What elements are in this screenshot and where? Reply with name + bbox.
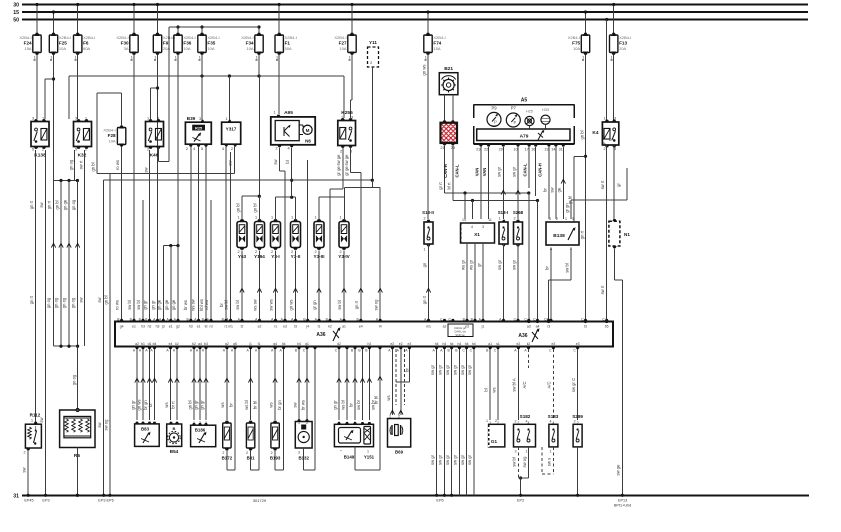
svg-text:15A: 15A (24, 46, 31, 51)
svg-text:1: 1 (582, 56, 584, 60)
svg-text:gn gr: gn gr (143, 300, 148, 310)
svg-text:F34: F34 (246, 40, 254, 45)
wire F30 down to A36 (133, 55, 135, 320)
wire A79 pin13 to B138 (542, 147, 549, 219)
svg-text:sw gr: sw gr (497, 259, 502, 270)
svg-text:X2B4-I: X2B4-I (285, 35, 297, 40)
svg-text:gn ge: gn ge (62, 199, 67, 210)
svg-text:sw gr: sw gr (460, 364, 465, 375)
svg-text:e3: e3 (408, 342, 412, 346)
svg-text:e4: e4 (359, 325, 363, 329)
svg-text:2: 2 (603, 147, 605, 151)
svg-text:1: 1 (271, 216, 273, 220)
svg-text:1: 1 (276, 56, 278, 60)
valve Y3-III (314, 216, 325, 259)
wire B138 pin5 riser (564, 168, 627, 219)
sensor B69 (388, 419, 411, 455)
svg-text:1: 1 (85, 117, 87, 121)
svg-text:16: 16 (531, 148, 535, 152)
wire H25 to A79 (529, 126, 531, 129)
svg-text:gr gn: gr gn (312, 300, 317, 310)
svg-text:G1: G1 (491, 439, 498, 444)
svg-text:EP2: EP2 (517, 499, 524, 503)
svg-text:sw s: sw s (546, 458, 551, 466)
svg-text:ws bl: ws bl (340, 400, 345, 410)
svg-text:br: br (228, 403, 233, 407)
wire pass-through x307.7 (307, 160, 309, 320)
wire A36 to B172 and return (220, 342, 237, 470)
svg-text:gn bl: gn bl (90, 162, 95, 171)
svg-text:e4: e4 (169, 342, 173, 346)
svg-text:sw ws: sw ws (269, 299, 274, 310)
svg-text:P9: P9 (491, 106, 497, 111)
svg-text:sw gr: sw gr (511, 166, 516, 177)
electronic module B39 with R25 (185, 116, 211, 151)
svg-text:1: 1 (550, 450, 552, 454)
wire misc riser x211 (210, 200, 212, 320)
fuse F36 (176, 25, 179, 33)
wire A36 to S183 dashed (547, 342, 556, 425)
svg-text:gn bl: gn bl (54, 200, 59, 209)
wire K32 pin5 down (68, 150, 74, 181)
fuse F74 body (424, 33, 446, 55)
svg-text:4: 4 (287, 147, 289, 151)
svg-text:h4: h4 (458, 342, 462, 346)
wire pair to ground EP19 EP46 (97, 180, 112, 497)
svg-text:sw bl: sw bl (136, 300, 141, 310)
fuse F6 (76, 3, 79, 33)
svg-text:h2: h2 (368, 342, 372, 346)
svg-text:e3: e3 (576, 342, 580, 346)
svg-text:m1: m1 (228, 325, 233, 329)
svg-text:B69: B69 (395, 450, 404, 455)
svg-text:F74: F74 (433, 40, 441, 45)
svg-text:g1: g1 (305, 342, 309, 346)
wire F75 down to A36 (579, 55, 587, 321)
fuse F9 (156, 3, 159, 33)
svg-text:g2: g2 (176, 325, 180, 329)
wire B39 pin4 down (198, 147, 200, 320)
wire B39 pin2 down (190, 147, 192, 320)
svg-text:F75: F75 (572, 40, 580, 45)
svg-text:A5: A5 (521, 98, 528, 104)
svg-text:30: 30 (13, 3, 19, 9)
svg-text:sw rt: sw rt (78, 160, 83, 170)
svg-text:ws gr: ws gr (460, 259, 465, 270)
svg-text:a1: a1 (488, 342, 492, 346)
svg-text:gn: gn (422, 262, 427, 267)
wire S183 dashed down (542, 447, 553, 474)
wire gn-og feed rail y180 (54, 179, 80, 182)
wire K256 pin2 down (330, 148, 343, 320)
svg-text:e3: e3 (283, 325, 287, 329)
svg-text:14: 14 (462, 218, 466, 222)
svg-text:3: 3 (75, 117, 77, 121)
svg-text:sw bl: sw bl (337, 300, 342, 310)
wire misc riser x143 (142, 200, 144, 320)
sensor B149 with valve Y151 (334, 422, 374, 460)
wire CAN link y200.5 (453, 199, 539, 321)
wire A36 to ground EP6 group (430, 342, 476, 497)
wire A36 to B149 and Y151 (332, 342, 375, 425)
wire misc riser x230.6 (230, 152, 232, 320)
relay K32 (74, 117, 92, 159)
svg-text:4: 4 (193, 147, 195, 151)
ground label EP3 (42, 499, 49, 503)
svg-text:2: 2 (246, 451, 248, 455)
svg-text:___: ___ (490, 122, 496, 126)
svg-text:EP13: EP13 (618, 499, 627, 503)
svg-text:sw ge: sw ge (616, 464, 621, 476)
svg-text:bl rt: bl rt (446, 182, 451, 190)
svg-text:gn gr: gn gr (332, 400, 337, 410)
svg-text:br: br (404, 368, 409, 372)
sensor B193 (270, 421, 281, 461)
fuse F75 pin 1 (582, 56, 584, 61)
svg-text:sw ge: sw ge (336, 154, 341, 166)
svg-text:e2: e2 (517, 342, 521, 346)
fuse F1 (278, 3, 281, 33)
wire F36 down to junction (177, 55, 179, 246)
node 50 bus line (13, 18, 808, 24)
wire A36 to B186 (187, 342, 208, 425)
svg-text:sw gr: sw gr (445, 454, 450, 465)
svg-text:j3: j3 (161, 325, 165, 329)
svg-text:gn og: gn og (71, 374, 76, 385)
svg-text:sw gr: sw gr (445, 364, 450, 375)
svg-text:br bl: br bl (252, 401, 257, 409)
svg-text:5: 5 (32, 148, 34, 152)
svg-text:R25: R25 (195, 125, 203, 130)
lamp H25 in A5 (525, 110, 534, 126)
wire A36 to B54 (164, 342, 179, 425)
svg-text:e1: e1 (132, 325, 136, 329)
svg-text:g5: g5 (233, 342, 237, 346)
svg-text:X2B4-I: X2B4-I (83, 35, 95, 40)
wire B138 pin6 down (544, 248, 551, 322)
svg-text:sw rt: sw rt (600, 180, 605, 190)
control unit A36 bar (115, 322, 613, 347)
svg-text:f1: f1 (258, 342, 261, 346)
svg-text:2: 2 (495, 419, 497, 423)
wire F9 down to A36 (151, 55, 160, 320)
svg-text:sw rt: sw rt (600, 285, 605, 295)
svg-text:ws: ws (386, 395, 391, 400)
svg-text:sw gr: sw gr (467, 454, 472, 465)
svg-text:a2: a2 (135, 342, 139, 346)
ground label EP19 EP46 (98, 499, 113, 503)
fuse F27 pin 1 (349, 56, 351, 61)
fuse F9 pin 1 (154, 56, 156, 61)
svg-text:2: 2 (515, 420, 517, 424)
fuse F75 body (568, 33, 590, 55)
connector X1 (461, 218, 495, 243)
svg-text:F30: F30 (121, 40, 129, 45)
svg-text:P7: P7 (511, 106, 517, 111)
valve Y194 (254, 216, 265, 259)
svg-text:sw gr: sw gr (467, 364, 472, 375)
wire N1 down to ground EP13 (615, 248, 625, 497)
svg-text:sw gr: sw gr (453, 454, 458, 465)
ground returns U-loops (227, 447, 380, 470)
svg-text:sw bl: sw bl (235, 300, 240, 310)
svg-text:e1: e1 (197, 325, 201, 329)
svg-text:t3: t3 (584, 325, 587, 329)
fuse F34 body (241, 33, 263, 55)
fuse F34 (257, 25, 260, 33)
svg-text:F1: F1 (285, 40, 291, 45)
ground label EP6 (436, 499, 443, 503)
chevron on x360.8 (359, 288, 363, 292)
svg-text:5: 5 (572, 217, 574, 221)
wire K138 pin5 to R112 (29, 150, 36, 423)
svg-text:4: 4 (222, 147, 224, 151)
connector X30 (red) (440, 120, 457, 149)
svg-text:sw gr: sw gr (438, 364, 443, 375)
svg-text:gn ge: gn ge (164, 299, 169, 310)
wire H33 to A79 (545, 124, 547, 129)
wire X1 out a (460, 243, 467, 321)
svg-text:gn og: gn og (46, 297, 51, 308)
diagram number 301729 (253, 498, 267, 503)
svg-text:1: 1 (50, 56, 52, 60)
sensor B132 (295, 419, 312, 460)
wire Y151 return up (373, 347, 382, 471)
svg-text:gn ws: gn ws (421, 65, 426, 76)
wire B21 to connector X30 (445, 95, 453, 123)
svg-text:gn gr: gn gr (151, 300, 156, 310)
svg-text:gn og: gn og (71, 199, 76, 210)
svg-text:s1: s1 (496, 342, 500, 346)
svg-text:1: 1 (34, 56, 36, 60)
fuse F74 pin 1 (425, 56, 427, 61)
svg-text:29: 29 (499, 148, 503, 152)
svg-text:gn bl: gn bl (252, 203, 257, 212)
svg-text:1: 1 (565, 217, 567, 221)
svg-text:Y151: Y151 (364, 455, 375, 460)
svg-text:h4: h4 (472, 342, 476, 346)
wire A36 to B83 (4 wires) (130, 342, 156, 425)
svg-text:e2: e2 (391, 342, 395, 346)
svg-text:a4: a4 (198, 342, 202, 346)
svg-text:S289: S289 (572, 414, 583, 419)
svg-text:K4: K4 (592, 130, 598, 136)
svg-text:b2: b2 (192, 342, 196, 346)
svg-text:br: br (544, 266, 549, 270)
svg-text:50: 50 (13, 18, 19, 24)
node 15 bus line (13, 10, 808, 16)
svg-text:2: 2 (222, 451, 224, 455)
svg-text:h3: h3 (141, 325, 145, 329)
svg-text:Y317: Y317 (226, 127, 237, 132)
wire S289 to ground (576, 447, 579, 497)
wire X1 out c (476, 243, 483, 321)
wire F24 to K138 pin3 (36, 55, 38, 119)
fuse F27 (350, 3, 353, 33)
svg-text:h4: h4 (465, 342, 469, 346)
svg-text:A36: A36 (316, 332, 325, 338)
svg-text:M: M (306, 128, 310, 133)
wire rail y27 from K46 riser (169, 27, 259, 162)
resistor R112 (24, 413, 42, 455)
svg-text:b3: b3 (204, 342, 208, 346)
svg-text:3: 3 (351, 116, 353, 120)
svg-text:F28: F28 (108, 133, 116, 138)
svg-text:X2B4-I: X2B4-I (183, 35, 195, 40)
svg-text:50A: 50A (285, 46, 292, 51)
fuse F36 pin 1 (175, 56, 177, 61)
ground dot mid (76, 494, 79, 497)
svg-text:R112: R112 (30, 413, 41, 418)
fuse F13 pin 1 (610, 56, 612, 61)
switch S13-I (498, 210, 509, 246)
svg-text:ws sw: ws sw (253, 298, 258, 310)
svg-text:gn og: gn og (68, 159, 73, 170)
wire Y317 pin4 down (225, 147, 227, 320)
svg-text:1: 1 (340, 216, 342, 220)
svg-text:CAN-H: CAN-H (537, 163, 542, 177)
svg-text:1: 1 (603, 117, 605, 121)
svg-text:e3: e3 (465, 325, 469, 329)
svg-text:br bl: br bl (373, 396, 378, 404)
svg-text:g2: g2 (225, 342, 229, 346)
svg-text:gn gr: gn gr (193, 400, 198, 410)
svg-text:1: 1 (154, 56, 156, 60)
fuse F1 pin 1 (276, 56, 278, 61)
svg-text:2: 2 (370, 61, 372, 65)
sensor B83 (135, 422, 160, 447)
svg-text:sw gr: sw gr (497, 166, 502, 177)
wire S268 down (511, 244, 518, 321)
fuse F30 body (116, 33, 138, 55)
wire K4 pin2 down to A36 (600, 145, 607, 321)
switch S183 (548, 414, 559, 454)
svg-text:1: 1 (486, 419, 488, 423)
svg-text:gn bl: gn bl (187, 400, 192, 409)
fuse F13 (612, 3, 615, 33)
svg-text:2: 2 (574, 420, 576, 424)
svg-text:2: 2 (24, 451, 26, 455)
svg-text:sw bl: sw bl (564, 263, 569, 273)
wire R5 to ground (76, 448, 79, 497)
wire X1 out b (468, 243, 475, 321)
svg-text:2: 2 (275, 147, 277, 151)
lamp H33 in A5 (541, 108, 550, 124)
wire F36 distribution junction (163, 244, 179, 320)
svg-text:3: 3 (199, 117, 201, 121)
svg-text:sw br: sw br (356, 399, 361, 410)
svg-text:10A: 10A (183, 46, 190, 51)
svg-text:1: 1 (74, 56, 76, 60)
svg-text:br: br (348, 403, 353, 407)
svg-text:S13-I: S13-I (498, 210, 509, 215)
svg-text:3: 3 (298, 451, 300, 455)
svg-text:1: 1 (273, 111, 275, 115)
svg-text:1: 1 (349, 56, 351, 60)
svg-text:1: 1 (31, 419, 33, 423)
ground label EP45 (24, 499, 33, 503)
svg-text:b1: b1 (141, 342, 145, 346)
svg-text:h3: h3 (156, 325, 160, 329)
svg-text:bl: bl (484, 388, 489, 391)
wire A36 to B69 shielded pair (386, 342, 412, 419)
svg-text:X2B4-I: X2B4-I (334, 35, 346, 40)
svg-text:10A: 10A (339, 46, 346, 51)
wire distribution line y76 (69, 74, 344, 119)
svg-text:S182: S182 (520, 414, 531, 419)
svg-text:gn og: gn og (62, 297, 67, 308)
svg-text:X2B4-I: X2B4-I (568, 35, 580, 40)
sensor B186 (191, 423, 216, 447)
wire K138 pin2 to ground EP3 (39, 150, 47, 497)
svg-text:5: 5 (201, 147, 203, 151)
wire A79 pin23 down to X1 (474, 147, 481, 219)
svg-text:2: 2 (147, 148, 149, 152)
svg-text:gn ws: gn ws (289, 300, 294, 311)
A5 bottom pin nubs and numbers (476, 144, 565, 152)
svg-text:bl: bl (285, 160, 290, 163)
svg-text:gr rt: gr rt (438, 181, 443, 189)
wire F1 to A95 pin1 (278, 55, 280, 114)
svg-text:2: 2 (556, 217, 558, 221)
sensor B21 (439, 66, 458, 95)
svg-text:br: br (542, 188, 547, 192)
svg-text:3: 3 (482, 225, 484, 229)
svg-text:g4: g4 (120, 325, 124, 329)
svg-text:gn rt: gn rt (422, 295, 427, 304)
switch S182 (514, 414, 536, 454)
svg-text:K46: K46 (150, 153, 159, 159)
fuse F30 (132, 3, 135, 33)
svg-text:b4: b4 (153, 342, 157, 346)
svg-text:23: 23 (476, 148, 480, 152)
svg-text:br: br (148, 403, 153, 407)
svg-text:3: 3 (32, 117, 34, 121)
svg-text:r3: r3 (547, 325, 550, 329)
svg-text:td: td (205, 325, 208, 329)
svg-text:gn ge: gn ge (156, 299, 161, 310)
fuse F27 body (334, 33, 356, 55)
svg-text:N6: N6 (305, 139, 311, 144)
svg-text:301729: 301729 (253, 498, 267, 503)
svg-text:sw og: sw og (522, 456, 527, 468)
svg-text:21: 21 (440, 146, 444, 150)
svg-text:VAN: VAN (482, 168, 487, 177)
svg-text:gn rt: gn rt (46, 200, 51, 209)
svg-text:K32: K32 (78, 153, 87, 159)
svg-text:X2B4-I: X2B4-I (103, 128, 115, 133)
svg-text:t3: t3 (294, 325, 297, 329)
wire B39 pin5 down (205, 147, 207, 320)
svg-text:B: B (173, 426, 176, 431)
svg-text:a4: a4 (536, 325, 540, 329)
svg-text:sw og: sw og (103, 419, 108, 431)
wire K32 pin2 down (78, 150, 84, 346)
svg-text:br ws: br ws (183, 300, 188, 310)
wire A36 to B193 and return (268, 342, 285, 470)
svg-text:B21: B21 (444, 66, 453, 72)
fuse F24 pin 1 (34, 56, 36, 61)
svg-text:e1: e1 (169, 325, 173, 329)
svg-text:F27: F27 (339, 40, 347, 45)
svg-text:31: 31 (559, 148, 563, 152)
sensor B172 (222, 421, 233, 461)
svg-text:br rt: br rt (170, 400, 175, 408)
svg-text:j1: j1 (248, 342, 252, 346)
svg-text:gr ge: gr ge (344, 166, 349, 176)
resistor pack R5 (60, 408, 95, 459)
svg-text:B138: B138 (553, 233, 565, 239)
